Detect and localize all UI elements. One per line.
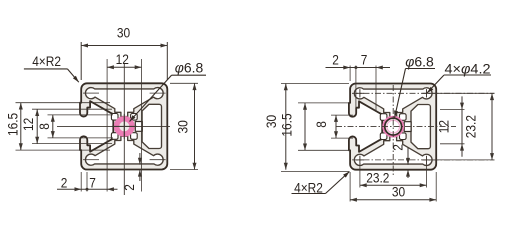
right profile bottom cavity bbox=[354, 137, 432, 166]
right profile hub east throat pocket bbox=[404, 122, 411, 132]
svg-text:8: 8 bbox=[37, 123, 53, 130]
right profile top cavity bbox=[354, 88, 432, 117]
svg-text:4×R2: 4×R2 bbox=[32, 54, 61, 70]
svg-text:2: 2 bbox=[391, 144, 407, 151]
left profile right cavity bbox=[142, 104, 161, 148]
dimension 30 right (left figure) bbox=[170, 82, 198, 84]
left profile body outline bbox=[80, 83, 167, 169]
dimension 30 bottom (right figure) bbox=[349, 172, 351, 202]
svg-text:2: 2 bbox=[61, 175, 68, 191]
left figure center hole cross marks bbox=[112, 125, 137, 127]
right figure bulb centerline bottom (dash-dot) bbox=[352, 159, 495, 161]
dimension 30 left (right figure) bbox=[281, 83, 349, 85]
svg-text:2: 2 bbox=[332, 53, 339, 69]
svg-text:23.2: 23.2 bbox=[464, 115, 480, 138]
svg-text:30: 30 bbox=[392, 185, 405, 201]
right profile right cavity bbox=[411, 105, 430, 149]
dimension 12 right (right figure) bbox=[440, 108, 465, 110]
svg-text:12: 12 bbox=[21, 118, 37, 131]
svg-text:16.5: 16.5 bbox=[6, 113, 22, 136]
svg-text:23.2: 23.2 bbox=[366, 170, 389, 186]
dimension 16.5 left (left figure) bbox=[16, 102, 111, 104]
dimension 2 bottom (left figure) bbox=[80, 172, 82, 192]
svg-text:12: 12 bbox=[437, 120, 453, 133]
left figure center hole phi6.8 (pink) bbox=[117, 119, 132, 134]
left profile bottom cavity bbox=[85, 136, 163, 165]
right profile body outline bbox=[349, 83, 436, 169]
svg-text:30: 30 bbox=[117, 26, 130, 42]
dimension 12 top (left figure) bbox=[106, 59, 108, 192]
right profile hub corner pockets bbox=[380, 114, 387, 121]
svg-text:φ6.8: φ6.8 bbox=[175, 61, 204, 77]
dimension 23.2 bottom (right figure) bbox=[359, 163, 361, 188]
svg-text:12: 12 bbox=[116, 52, 129, 68]
svg-text:2: 2 bbox=[122, 184, 138, 191]
dimension 12 left (left figure) bbox=[32, 108, 112, 110]
left figure centerline vertical bbox=[123, 64, 125, 195]
svg-text:7: 7 bbox=[361, 53, 368, 69]
dimension 8 left (left figure) bbox=[48, 114, 114, 116]
dimension 2 wall thickness (right figure) bbox=[407, 147, 409, 165]
left profile hub east throat pocket bbox=[135, 122, 142, 132]
svg-text:8: 8 bbox=[314, 121, 330, 128]
dimension 7 bottom (left figure) bbox=[107, 187, 114, 191]
right figure centerline horizontal (dash-dot) bbox=[336, 126, 456, 128]
right figure bulb centerline top (dash-dot) bbox=[352, 92, 495, 94]
svg-text:16.5: 16.5 bbox=[280, 113, 296, 136]
dimension 7 top (right figure) bbox=[375, 66, 377, 113]
svg-text:30: 30 bbox=[264, 115, 280, 128]
left profile top cavity bbox=[85, 88, 163, 117]
svg-text:4×R2: 4×R2 bbox=[294, 181, 323, 197]
left figure centerline horizontal bbox=[57, 125, 170, 127]
svg-text:7: 7 bbox=[89, 175, 96, 191]
dimension 23.2 right (right figure) bbox=[428, 92, 495, 94]
dimension 8 left (right figure) bbox=[331, 114, 353, 116]
right figure center hole phi6.8 (pink highlight + circle) bbox=[382, 116, 404, 138]
right figure centerline vertical (dash-dot) bbox=[392, 85, 394, 176]
dimension 2 top (right figure) bbox=[349, 66, 351, 82]
left profile hub corner pockets bbox=[111, 114, 118, 121]
right figure corner hole cross marks bbox=[356, 92, 364, 94]
dimension 30 top (left figure) bbox=[80, 42, 82, 80]
left figure bulb center marks bbox=[83, 92, 99, 94]
dimension 2 wall thickness (left figure) bbox=[139, 153, 141, 165]
svg-text:30: 30 bbox=[176, 120, 192, 133]
dimension 16.5 left (right figure) bbox=[298, 102, 350, 104]
